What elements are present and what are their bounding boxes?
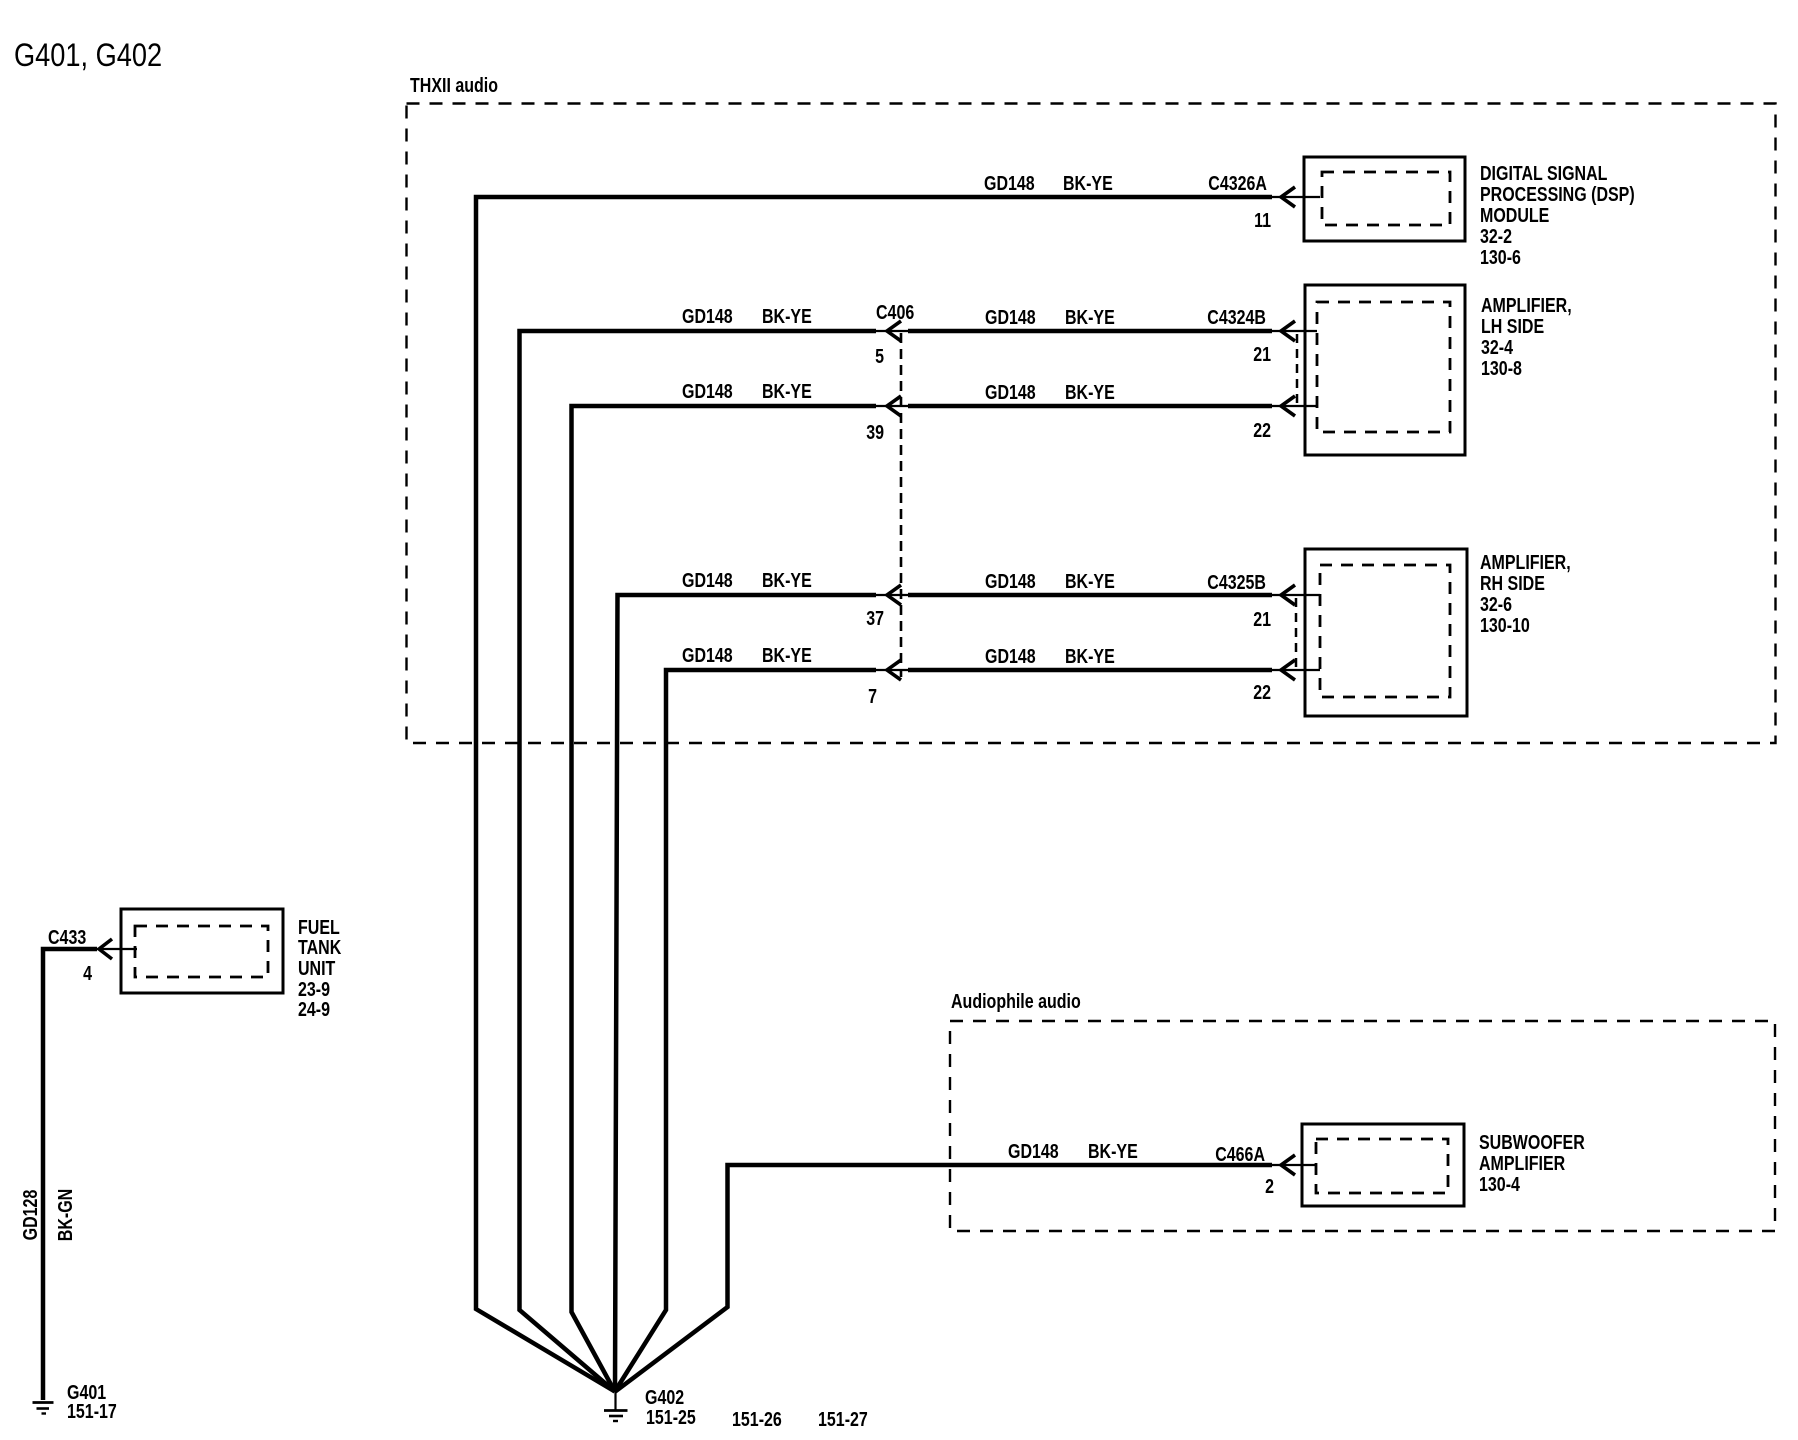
- svg-text:AMPLIFIER: AMPLIFIER: [1479, 1152, 1565, 1174]
- arrow C406 pin 5: [887, 321, 901, 341]
- svg-text:11: 11: [1254, 209, 1271, 231]
- label "BK-YE" @(1065,324): [1065, 306, 1115, 328]
- label "151-26" @(732,1426): [732, 1408, 782, 1430]
- wire W5 RH amp pin22 left segment: [615, 670, 876, 1392]
- svg-text:MODULE: MODULE: [1480, 204, 1549, 226]
- svg-text:4: 4: [83, 962, 92, 984]
- svg-text:TANK: TANK: [298, 936, 341, 958]
- label "BK-YE" @(1065,663): [1065, 645, 1115, 667]
- svg-text:151-17: 151-17: [67, 1400, 117, 1422]
- svg-text:DIGITAL SIGNAL: DIGITAL SIGNAL: [1480, 162, 1607, 184]
- svg-text:130-10: 130-10: [1480, 614, 1530, 636]
- subwoofer amplifier connector box U4: [1302, 1124, 1464, 1206]
- arrow C406 pin 39: [887, 396, 901, 416]
- title G401, G402: [14, 38, 162, 74]
- svg-text:C4325B: C4325B: [1207, 571, 1266, 593]
- label "AMPLIFIER," @(1480,569): [1480, 551, 1571, 573]
- label "BK-YE" @(1063,190): [1063, 172, 1113, 194]
- svg-text:7: 7: [868, 685, 877, 707]
- svg-text:21: 21: [1253, 608, 1271, 630]
- label "22" @(1271,437): [1253, 419, 1271, 441]
- wire W1 DSP ground wire: [476, 197, 1272, 1392]
- label "UNIT" @(298,975): [298, 957, 335, 979]
- svg-text:39: 39: [866, 421, 884, 443]
- ground G401: [33, 1403, 54, 1414]
- wire W2 LH amp pin21 left segment: [520, 331, 877, 1392]
- svg-text:UNIT: UNIT: [298, 957, 335, 979]
- Audiophile audio dashed box: [950, 1021, 1775, 1231]
- label "GD148" @(682,662): [682, 644, 733, 666]
- label "GD148" @(985,399): [985, 381, 1036, 403]
- svg-text:GD148: GD148: [682, 380, 733, 402]
- svg-text:GD128: GD128: [19, 1190, 41, 1241]
- label "32-2" @(1480,243): [1480, 225, 1512, 247]
- wire fuel tank ground wire GD128: [43, 949, 97, 1400]
- svg-text:G401, G402: G401, G402: [14, 38, 162, 74]
- svg-text:FUEL: FUEL: [298, 916, 340, 938]
- svg-text:GD148: GD148: [682, 644, 733, 666]
- svg-text:BK-YE: BK-YE: [762, 305, 812, 327]
- label "LH SIDE" @(1481,333): [1481, 315, 1544, 337]
- label "BK-YE" @(1065,399): [1065, 381, 1115, 403]
- label "151-25" @(646,1424): [646, 1406, 696, 1428]
- svg-text:BK-YE: BK-YE: [1088, 1140, 1138, 1162]
- svg-text:RH SIDE: RH SIDE: [1480, 572, 1545, 594]
- svg-text:BK-YE: BK-YE: [762, 569, 812, 591]
- svg-text:C433: C433: [48, 926, 86, 948]
- pin stub C466A pin 2: [1272, 1164, 1316, 1166]
- svg-text:BK-YE: BK-YE: [1065, 570, 1115, 592]
- svg-text:21: 21: [1253, 343, 1271, 365]
- label "7" @(877,703): [868, 685, 877, 707]
- label "BK-YE" @(1065,588): [1065, 570, 1115, 592]
- label "24-9" @(298,1016): [298, 998, 330, 1020]
- svg-text:GD148: GD148: [985, 645, 1036, 667]
- arrow C406 pin 37: [887, 585, 901, 605]
- svg-text:GD148: GD148: [682, 569, 733, 591]
- svg-text:130-8: 130-8: [1481, 357, 1522, 379]
- pin stub C406 pin 7: [876, 669, 908, 671]
- label "BK-YE" @(762,587): [762, 569, 812, 591]
- label "11" @(1271,227): [1254, 209, 1271, 231]
- svg-text:G402: G402: [645, 1386, 684, 1408]
- label "5" @(884,363): [875, 345, 884, 367]
- svg-text:23-9: 23-9: [298, 978, 330, 1000]
- svg-text:AMPLIFIER,: AMPLIFIER,: [1480, 551, 1571, 573]
- svg-text:BK-YE: BK-YE: [762, 644, 812, 666]
- label "2" @(1274,1193): [1265, 1175, 1274, 1197]
- pin stub C433 pin 4: [97, 948, 137, 950]
- svg-text:BK-YE: BK-YE: [1065, 645, 1115, 667]
- label "DIGITAL SIGNAL" @(1480,180): [1480, 162, 1607, 184]
- svg-text:BK-YE: BK-YE: [1065, 306, 1115, 328]
- pin stub C4325B pin 21: [1272, 594, 1320, 596]
- label "GD148" @(682,398): [682, 380, 733, 402]
- label "C406" @(876,319): [876, 301, 914, 323]
- svg-text:GD148: GD148: [985, 381, 1036, 403]
- label "TANK" @(298,954): [298, 936, 341, 958]
- label "AMPLIFIER" @(1479,1170): [1479, 1152, 1565, 1174]
- connector C406 dashed line: [900, 333, 903, 677]
- arrow C466A: [1281, 1155, 1295, 1175]
- svg-text:32-4: 32-4: [1481, 336, 1513, 358]
- svg-text:5: 5: [875, 345, 884, 367]
- svg-text:PROCESSING (DSP): PROCESSING (DSP): [1480, 183, 1635, 205]
- svg-text:32-2: 32-2: [1480, 225, 1512, 247]
- label "MODULE" @(1480,222): [1480, 204, 1549, 226]
- wire label GD128 (rotated): [19, 1190, 41, 1241]
- svg-text:C4326A: C4326A: [1208, 172, 1267, 194]
- svg-text:BK-GN: BK-GN: [54, 1189, 76, 1241]
- fuel tank unit connector box U5: [121, 909, 283, 993]
- svg-text:37: 37: [866, 607, 884, 629]
- label "21" @(1271,626): [1253, 608, 1271, 630]
- svg-text:151-25: 151-25: [646, 1406, 696, 1428]
- label "RH SIDE" @(1480,590): [1480, 572, 1545, 594]
- label "21" @(1271,361): [1253, 343, 1271, 365]
- label "130-10" @(1480,632): [1480, 614, 1530, 636]
- svg-text:AMPLIFIER,: AMPLIFIER,: [1481, 294, 1572, 316]
- label "32-4" @(1481,354): [1481, 336, 1513, 358]
- svg-text:LH SIDE: LH SIDE: [1481, 315, 1544, 337]
- label "FUEL" @(298,934): [298, 916, 340, 938]
- svg-text:GD148: GD148: [1008, 1140, 1059, 1162]
- wire W4 RH amp pin21 left segment: [615, 595, 876, 1392]
- connector C4324B dashed link: [1296, 334, 1299, 404]
- wire W3 right segment: [908, 404, 1272, 409]
- wire label BK-GN (rotated): [54, 1189, 76, 1241]
- label "GD148" @(1008,1158): [1008, 1140, 1059, 1162]
- label "BK-YE" @(1088,1158): [1088, 1140, 1138, 1162]
- label "C4325B" @(1266,589): [1207, 571, 1266, 593]
- THXII audio dashed box: [407, 104, 1776, 744]
- svg-text:C4324B: C4324B: [1207, 306, 1266, 328]
- pin stub C4324B pin 22: [1272, 405, 1317, 407]
- arrow C4325B pin 22: [1281, 660, 1295, 680]
- svg-text:BK-YE: BK-YE: [1065, 381, 1115, 403]
- svg-text:THXII audio: THXII audio: [410, 74, 498, 96]
- arrow C4326A: [1281, 187, 1295, 207]
- wire W3 LH amp pin22 left segment: [572, 406, 877, 1392]
- label "BK-YE" @(762,323): [762, 305, 812, 327]
- svg-text:BK-YE: BK-YE: [1063, 172, 1113, 194]
- wire W2 right segment: [908, 329, 1272, 334]
- label "GD148" @(985,588): [985, 570, 1036, 592]
- svg-text:151-27: 151-27: [818, 1408, 868, 1430]
- svg-text:GD148: GD148: [985, 306, 1036, 328]
- label "32-6" @(1480,611): [1480, 593, 1512, 615]
- label "G401" @(67,1399): [67, 1381, 106, 1403]
- wire W6 subwoofer ground wire: [615, 1165, 1272, 1392]
- svg-text:GD148: GD148: [985, 570, 1036, 592]
- arrow C406 pin 7: [887, 660, 901, 680]
- label "C466A" @(1265,1161): [1215, 1143, 1265, 1165]
- ground G402: [604, 1391, 628, 1421]
- label "PROCESSING (DSP)" @(1480,201): [1480, 183, 1635, 205]
- label "G402" @(645,1404): [645, 1386, 684, 1408]
- label "130-8" @(1481,375): [1481, 357, 1522, 379]
- svg-text:C466A: C466A: [1215, 1143, 1265, 1165]
- label "GD148" @(984,190): [984, 172, 1035, 194]
- label "Audiophile audio" @(951,1008): [951, 990, 1081, 1012]
- LH amplifier connector box U2: [1305, 285, 1465, 455]
- svg-text:SUBWOOFER: SUBWOOFER: [1479, 1131, 1585, 1153]
- label "151-17" @(67,1418): [67, 1400, 117, 1422]
- svg-text:Audiophile audio: Audiophile audio: [951, 990, 1081, 1012]
- label "4" @(92,980): [83, 962, 92, 984]
- pin stub C4324B pin 21: [1272, 330, 1317, 332]
- svg-text:GD148: GD148: [984, 172, 1035, 194]
- wire W5 right segment: [908, 668, 1272, 673]
- connector C4325B dashed link: [1295, 598, 1298, 668]
- svg-text:2: 2: [1265, 1175, 1274, 1197]
- svg-text:32-6: 32-6: [1480, 593, 1512, 615]
- pin stub C406 pin 37: [876, 594, 908, 596]
- svg-text:24-9: 24-9: [298, 998, 330, 1020]
- label "C433" @(48,944): [48, 926, 86, 948]
- label "GD148" @(682,323): [682, 305, 733, 327]
- label "39" @(884,439): [866, 421, 884, 443]
- DSP module connector box U1: [1304, 157, 1465, 241]
- svg-text:22: 22: [1253, 681, 1271, 703]
- label "GD148" @(985,663): [985, 645, 1036, 667]
- pin stub C406 pin 5: [876, 330, 908, 332]
- label "151-27" @(818,1426): [818, 1408, 868, 1430]
- label "GD148" @(985,324): [985, 306, 1036, 328]
- label "C4324B" @(1266,324): [1207, 306, 1266, 328]
- arrow C4325B pin 21: [1281, 585, 1295, 605]
- RH amplifier connector box U3: [1305, 549, 1467, 716]
- svg-text:C406: C406: [876, 301, 914, 323]
- label "GD148" @(682,587): [682, 569, 733, 591]
- pin stub C4326A pin 11: [1272, 196, 1320, 198]
- arrow C4324B pin 22: [1281, 396, 1295, 416]
- pin stub C4325B pin 22: [1272, 669, 1320, 671]
- pin stub C406 pin 39: [876, 405, 908, 407]
- label "BK-YE" @(762,662): [762, 644, 812, 666]
- label "C4326A" @(1267,190): [1208, 172, 1267, 194]
- label "AMPLIFIER," @(1481,312): [1481, 294, 1572, 316]
- svg-text:BK-YE: BK-YE: [762, 380, 812, 402]
- label "BK-YE" @(762,398): [762, 380, 812, 402]
- label "THXII audio" @(410,92): [410, 74, 498, 96]
- svg-text:151-26: 151-26: [732, 1408, 782, 1430]
- svg-text:22: 22: [1253, 419, 1271, 441]
- arrow C433: [99, 939, 112, 959]
- label "SUBWOOFER" @(1479,1149): [1479, 1131, 1585, 1153]
- label "22" @(1271,699): [1253, 681, 1271, 703]
- arrow C4324B pin 21: [1281, 321, 1295, 341]
- svg-text:130-6: 130-6: [1480, 246, 1521, 268]
- label "37" @(884,625): [866, 607, 884, 629]
- svg-text:130-4: 130-4: [1479, 1173, 1520, 1195]
- svg-text:GD148: GD148: [682, 305, 733, 327]
- wire W4 right segment: [908, 593, 1272, 598]
- label "130-4" @(1479,1191): [1479, 1173, 1520, 1195]
- label "23-9" @(298,996): [298, 978, 330, 1000]
- label "130-6" @(1480,264): [1480, 246, 1521, 268]
